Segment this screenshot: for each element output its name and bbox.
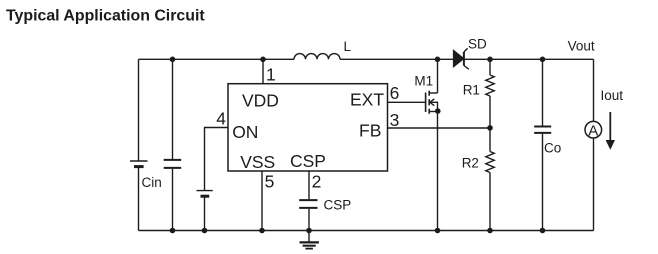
- svg-text:Co: Co: [544, 141, 561, 156]
- svg-text:Typical Application Circuit: Typical Application Circuit: [6, 7, 205, 24]
- wire M1 source: [437, 112, 439, 231]
- wire ON branch lower: [204, 197, 206, 230]
- node top rail at Cin: [170, 57, 176, 63]
- svg-text:Vout: Vout: [568, 39, 595, 54]
- svg-text:Iout: Iout: [601, 88, 624, 103]
- svg-text:CSP: CSP: [324, 198, 352, 213]
- transistor M1: [426, 91, 438, 114]
- wire output vertical lower: [593, 138, 595, 231]
- wire EXT gate line: [388, 101, 426, 103]
- wire M1 drain: [437, 59, 439, 93]
- wire Cin branch lower: [172, 169, 174, 231]
- svg-text:VDD: VDD: [242, 91, 279, 111]
- node bottom rail at Co: [540, 228, 546, 234]
- svg-text:3: 3: [390, 110, 400, 130]
- node bottom rail at R2: [487, 228, 493, 234]
- svg-text:5: 5: [265, 171, 275, 191]
- svg-text:R1: R1: [463, 82, 480, 97]
- svg-text:CSP: CSP: [290, 151, 326, 171]
- node bottom rail at VSS: [259, 228, 265, 234]
- svg-text:FB: FB: [359, 121, 381, 141]
- capacitor CSP: [299, 200, 317, 208]
- svg-text:Cin: Cin: [142, 175, 162, 190]
- wire output vertical upper: [593, 59, 595, 121]
- capacitor Cin: [164, 160, 182, 168]
- node top rail at M1 drain: [435, 57, 441, 63]
- svg-text:L: L: [344, 39, 352, 54]
- svg-text:ON: ON: [232, 122, 258, 142]
- svg-text:VSS: VSS: [240, 152, 275, 172]
- op-amp U1 (IC block): [228, 84, 388, 171]
- resistor R1: [486, 59, 494, 128]
- svg-text:EXT: EXT: [350, 90, 384, 110]
- svg-text:6: 6: [390, 83, 400, 103]
- svg-text:4: 4: [216, 109, 226, 129]
- node top rail at VDD: [260, 57, 266, 63]
- svg-text:R2: R2: [462, 156, 479, 171]
- resistor R2: [486, 128, 494, 231]
- wire left vertical (input branch upper): [138, 59, 140, 161]
- svg-text:2: 2: [312, 171, 322, 191]
- wire bottom rail: [139, 230, 594, 232]
- node bottom rail at Cin: [170, 228, 176, 234]
- arrow Iout: [606, 112, 615, 150]
- wire CSP pin: [308, 171, 310, 199]
- wire Cin branch upper: [172, 59, 174, 159]
- diode SD: [453, 48, 468, 69]
- battery B2: [197, 191, 213, 197]
- node top rail at Co: [540, 57, 546, 63]
- ground: [300, 231, 319, 249]
- node bottom rail at M1 source: [435, 228, 441, 234]
- wire pin1 VDD: [262, 59, 264, 83]
- svg-text:SD: SD: [468, 36, 487, 51]
- battery B1: [130, 161, 148, 167]
- wire left vertical (input branch lower): [138, 168, 140, 231]
- wire ON pin: [205, 128, 229, 191]
- svg-text:M1: M1: [414, 73, 433, 88]
- wire Co branch upper: [542, 59, 544, 125]
- svg-text:1: 1: [266, 65, 276, 85]
- node FB divider: [487, 125, 493, 131]
- capacitor Co: [534, 127, 551, 133]
- wire top rail right segment: [465, 58, 594, 60]
- wire VSS pin: [261, 171, 263, 231]
- wire FB line: [388, 127, 491, 129]
- svg-text:A: A: [588, 122, 598, 139]
- wire top rail mid segment: [340, 58, 453, 60]
- node bottom rail at B2: [202, 228, 208, 234]
- node top rail at R1: [487, 57, 493, 63]
- node bottom rail at CSP/ground: [306, 228, 312, 234]
- node M1 source: [435, 108, 441, 114]
- wire top rail left segment: [139, 58, 295, 60]
- wire CSP branch lower: [308, 209, 310, 231]
- ammeter A: [585, 121, 602, 139]
- wire Co branch lower: [542, 134, 544, 231]
- inductor L: [294, 54, 340, 60]
